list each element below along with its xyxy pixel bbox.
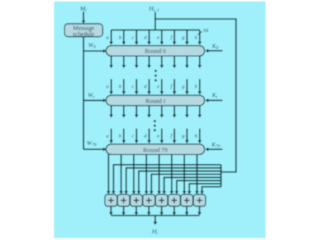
svg-text:h: h bbox=[195, 134, 198, 140]
svg-text:Kt: Kt bbox=[211, 92, 218, 99]
svg-text:schedule: schedule bbox=[73, 32, 95, 38]
svg-text:h: h bbox=[195, 84, 198, 90]
svg-text:a: a bbox=[106, 134, 109, 140]
svg-text:Round t: Round t bbox=[145, 98, 165, 105]
svg-text:g: g bbox=[182, 134, 185, 140]
svg-text:g: g bbox=[182, 84, 185, 90]
svg-text:b: b bbox=[119, 134, 122, 140]
svg-text:Round 79: Round 79 bbox=[143, 147, 167, 154]
svg-text:Wt: Wt bbox=[88, 92, 95, 99]
svg-text:K79: K79 bbox=[211, 141, 221, 148]
svg-text:Hi: Hi bbox=[151, 229, 159, 236]
svg-text:64: 64 bbox=[204, 29, 209, 34]
svg-text:K0: K0 bbox=[211, 43, 219, 50]
svg-text:g: g bbox=[182, 35, 185, 41]
svg-text:b: b bbox=[119, 35, 122, 41]
svg-text:h: h bbox=[195, 35, 198, 41]
svg-text:d: d bbox=[144, 134, 147, 140]
svg-text:a: a bbox=[106, 35, 109, 41]
svg-text:a: a bbox=[106, 84, 109, 90]
svg-text:d: d bbox=[144, 35, 147, 41]
svg-text:Mi: Mi bbox=[79, 5, 87, 12]
svg-text:W79: W79 bbox=[87, 140, 97, 147]
svg-text:W0: W0 bbox=[88, 42, 96, 49]
svg-text:b: b bbox=[119, 84, 122, 90]
svg-text:Round 0: Round 0 bbox=[145, 48, 166, 55]
svg-text:Hi–1: Hi–1 bbox=[148, 6, 159, 13]
svg-text:d: d bbox=[144, 84, 147, 90]
